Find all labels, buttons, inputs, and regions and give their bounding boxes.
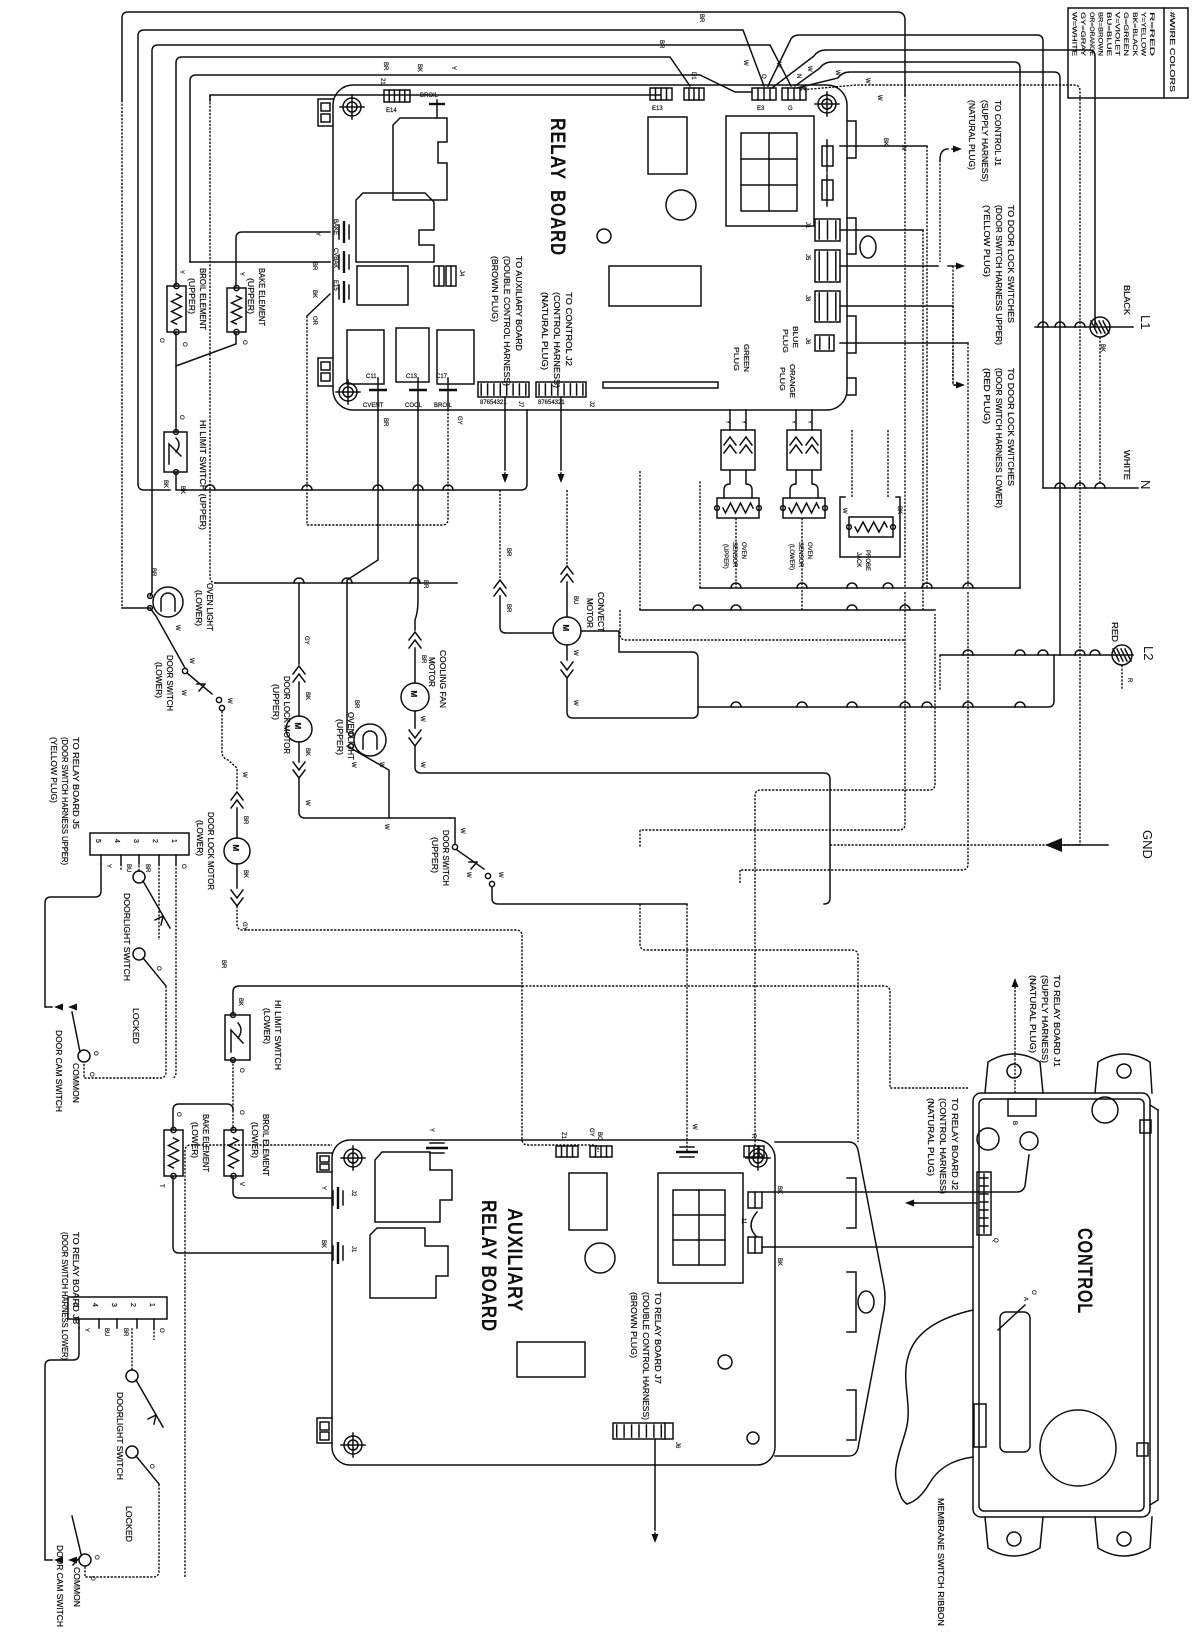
svg-text:TO RELAY BOARD J2: TO RELAY BOARD J2 <box>950 1098 959 1191</box>
card edge tab <box>847 1178 856 1228</box>
svg-text:BR: BR <box>122 1328 128 1337</box>
hole large <box>1040 1410 1116 1486</box>
hole <box>585 1243 615 1273</box>
svg-text:BR: BR <box>144 864 150 873</box>
hole <box>666 190 696 220</box>
oven light (lower) <box>148 587 183 617</box>
capacitor C11 CVENT <box>377 378 379 410</box>
wire bake element top <box>236 232 330 288</box>
mesh h845 <box>830 844 1080 846</box>
svg-text:TO DOOR LOCK SWITCHES: TO DOOR LOCK SWITCHES <box>1006 205 1015 323</box>
svg-text:(DOOR SWITCH HARNESS LOWER): (DOOR SWITCH HARNESS LOWER) <box>60 1232 69 1360</box>
svg-text:M: M <box>409 691 418 698</box>
svg-text:G: G <box>788 106 793 112</box>
aux board screws <box>341 1146 365 1170</box>
svg-text:BAKE ELEMENT: BAKE ELEMENT <box>257 268 266 326</box>
svg-text:W: W <box>419 716 425 722</box>
wire board J8 to bundle <box>840 265 938 267</box>
svg-text:W: W <box>742 60 748 66</box>
terminal L1 <box>1035 326 1133 328</box>
svg-text:1: 1 <box>170 839 177 843</box>
svg-text:Z1: Z1 <box>560 1132 566 1140</box>
wire to aux board w <box>686 904 688 1152</box>
svg-text:#WIRE COLORS: #WIRE COLORS <box>1168 12 1175 92</box>
svg-text:E15: E15 <box>332 280 338 291</box>
connector J5 <box>815 250 840 282</box>
control body <box>973 1093 1158 1517</box>
aux relay block grid <box>658 1173 743 1283</box>
svg-text:(LOWER): (LOWER) <box>262 1008 271 1044</box>
svg-text:RED: RED <box>1110 622 1119 642</box>
svg-text:11: 11 <box>740 1218 746 1225</box>
capacitor C13 COOL <box>417 378 419 410</box>
svg-text:G=GREEN: G=GREEN <box>1122 12 1128 56</box>
svg-text:O: O <box>238 1110 244 1115</box>
svg-text:BAKE ELEMENT: BAKE ELEMENT <box>201 1114 210 1172</box>
hole <box>597 229 611 243</box>
wire board J1 to bundle <box>840 145 927 147</box>
svg-text:Y: Y <box>724 420 730 424</box>
svg-text:BR: BR <box>658 40 664 49</box>
svg-text:C17: C17 <box>436 374 448 380</box>
svg-text:M: M <box>293 723 302 730</box>
svg-text:PLUG: PLUG <box>781 329 788 353</box>
svg-text:J5: J5 <box>804 254 810 261</box>
svg-text:R=RED: R=RED <box>1148 12 1154 57</box>
svg-text:AUXILIARY: AUXILIARY <box>503 1208 526 1312</box>
mesh h830 <box>640 592 905 830</box>
relay block K9 grid <box>726 116 814 226</box>
svg-text:OVEN: OVEN <box>806 542 812 559</box>
svg-text:CVBAK: CVBAK <box>332 248 338 268</box>
svg-text:4: 4 <box>91 1303 98 1307</box>
svg-text:BK=BLACK: BK=BLACK <box>1131 12 1137 56</box>
svg-text:O: O <box>93 1555 99 1560</box>
svg-text:BK: BK <box>162 480 168 488</box>
svg-text:O: O <box>175 1112 181 1117</box>
svg-text:J1: J1 <box>804 222 810 229</box>
svg-text:W: W <box>188 658 194 664</box>
svg-text:2: 2 <box>129 1303 136 1307</box>
wire colors legend box <box>1068 8 1188 98</box>
wire top run 2 <box>138 30 764 484</box>
svg-text:T: T <box>158 1184 164 1188</box>
svg-text:V=VIOLET: V=VIOLET <box>1114 12 1120 56</box>
svg-text:DOOR CAM SWITCH: DOOR CAM SWITCH <box>55 1545 64 1627</box>
svg-text:DOOR LOCK MOTOR: DOOR LOCK MOTOR <box>206 812 215 890</box>
svg-text:TO RELAY BOARD J7: TO RELAY BOARD J7 <box>653 1292 662 1385</box>
svg-text:GND: GND <box>1140 830 1155 859</box>
control mounting ear bottom left <box>985 1517 1043 1556</box>
svg-text:J8: J8 <box>804 295 810 302</box>
svg-text:R: R <box>750 1134 756 1139</box>
svg-text:87654321: 87654321 <box>480 400 507 406</box>
card edge tab <box>847 316 856 353</box>
aux top edge terminal Y <box>426 1147 448 1149</box>
relay K7 <box>648 117 687 174</box>
svg-text:(DOOR SWITCH HARNESS UPPER): (DOOR SWITCH HARNESS UPPER) <box>994 205 1003 345</box>
svg-text:PLUG: PLUG <box>732 347 739 371</box>
svg-text:BR: BR <box>698 14 704 23</box>
svg-text:W: W <box>180 690 186 696</box>
auxiliary relay board outline <box>317 1140 885 1465</box>
door cam switch 1 <box>78 1050 90 1062</box>
wire aux to control 1 <box>762 1155 1029 1192</box>
svg-text:J4: J4 <box>458 270 464 277</box>
svg-text:(LOWER): (LOWER) <box>250 1122 259 1158</box>
card edge tab <box>847 218 856 254</box>
svg-text:N: N <box>1138 480 1153 489</box>
svg-text:BAKE: BAKE <box>332 219 338 235</box>
aux top edge connector BO <box>590 1146 612 1157</box>
svg-text:3: 3 <box>110 1303 117 1307</box>
svg-text:BR=BROWN: BR=BROWN <box>1096 12 1102 56</box>
wire assembly2 left loop <box>45 1328 79 1560</box>
connector E13 <box>650 88 672 100</box>
connector J7 pin header <box>478 382 529 397</box>
wire pin1 riser 2 to aux <box>185 1145 332 1577</box>
wire top run 4 <box>176 57 690 286</box>
connector block J8 <box>68 1297 167 1319</box>
svg-text:BK: BK <box>311 290 317 298</box>
wire hi limit lower to broil <box>232 1060 234 1130</box>
wire fan right 5 <box>800 85 1080 845</box>
control mounting ear bottom right <box>1095 1517 1152 1556</box>
svg-text:2: 2 <box>151 839 158 843</box>
svg-text:M: M <box>231 845 240 852</box>
wire door switch upper output <box>492 887 687 904</box>
svg-text:BK: BK <box>416 64 422 72</box>
svg-text:OVEN LIGHT: OVEN LIGHT <box>205 583 214 631</box>
wire bake lower bottom to aux <box>173 1176 332 1253</box>
convect motor <box>566 490 568 566</box>
control connector P1 <box>1008 1099 1036 1116</box>
svg-text:BR: BR <box>353 700 359 709</box>
connector J3 pin header <box>536 382 586 397</box>
door lock motor (lower) <box>231 792 243 800</box>
svg-text:4: 4 <box>113 839 120 843</box>
svg-text:BR: BR <box>420 655 426 664</box>
svg-text:Y=YELLOW: Y=YELLOW <box>1139 12 1145 56</box>
svg-text:O: O <box>148 1464 154 1469</box>
svg-text:DOOR SWITCH: DOOR SWITCH <box>441 830 450 886</box>
svg-text:O: O <box>178 415 184 420</box>
svg-text:Y: Y <box>320 1186 326 1190</box>
wire assembly1 left loop <box>45 864 101 1007</box>
svg-text:(NATURAL PLUG): (NATURAL PLUG) <box>540 292 549 370</box>
aux relay K3 <box>569 1173 607 1230</box>
hole <box>1092 1097 1118 1123</box>
svg-text:Y: Y <box>806 420 812 424</box>
svg-text:W: W <box>572 700 578 706</box>
svg-text:HI LIMIT SWITCH: HI LIMIT SWITCH <box>273 1000 282 1070</box>
wire door switch to door lock motor (lower) <box>222 711 237 790</box>
svg-text:BLUE: BLUE <box>791 326 798 348</box>
svg-text:TO DOOR LOCK SWITCHES: TO DOOR LOCK SWITCHES <box>1006 368 1015 486</box>
svg-text:DOOR LOCK MOTOR: DOOR LOCK MOTOR <box>282 676 291 754</box>
wire board to orange plug <box>795 410 797 430</box>
svg-text:Y: Y <box>450 66 456 70</box>
wire staircase to aux right <box>640 904 858 1142</box>
svg-text:3: 3 <box>132 839 139 843</box>
aux relay K2 <box>370 1228 448 1298</box>
mesh h610 <box>640 609 935 611</box>
svg-text:(DOOR SWITCH HARNESS UPPER): (DOOR SWITCH HARNESS UPPER) <box>60 737 69 865</box>
svg-text:LOCKED: LOCKED <box>124 1506 133 1542</box>
svg-text:W: W <box>174 625 180 631</box>
svg-text:L2: L2 <box>1141 646 1156 660</box>
svg-text:O: O <box>238 1068 244 1073</box>
oven sensor (lower) <box>790 470 796 498</box>
relay K5 <box>396 328 429 382</box>
hole <box>860 236 876 258</box>
svg-text:W: W <box>226 698 232 704</box>
svg-text:COMMON: COMMON <box>72 1567 81 1607</box>
svg-text:COOL: COOL <box>405 403 423 409</box>
card edge tab <box>847 378 856 395</box>
svg-text:(SUPPLY HARNESS): (SUPPLY HARNESS) <box>980 100 989 182</box>
svg-text:W: W <box>864 78 870 84</box>
wire hi limit to board <box>176 410 527 490</box>
svg-text:A: A <box>1022 1297 1028 1301</box>
svg-text:(CONTROL HARNESS): (CONTROL HARNESS) <box>552 292 561 388</box>
control left edge connector <box>974 1404 986 1447</box>
svg-text:(BROWN PLUG): (BROWN PLUG) <box>629 1292 638 1358</box>
svg-text:(UPPER): (UPPER) <box>335 719 344 755</box>
svg-text:J6: J6 <box>674 1442 680 1449</box>
wire oven light upper bottom <box>347 746 389 818</box>
svg-text:Y: Y <box>428 1128 434 1132</box>
svg-text:BK: BK <box>320 1240 326 1248</box>
wire probe feeds <box>851 430 853 497</box>
connector J6 <box>815 335 834 351</box>
probe jack <box>840 497 900 557</box>
wire top run 3 <box>152 45 791 592</box>
svg-text:BLACK: BLACK <box>1122 285 1131 316</box>
svg-text:OR: OR <box>311 316 317 326</box>
svg-text:BK: BK <box>882 138 888 146</box>
ribbon connector <box>1000 1312 1030 1452</box>
connector D1 <box>684 88 704 100</box>
connector J8 <box>815 291 840 322</box>
wire control J1 arrow up <box>1014 990 1016 1093</box>
card edge tab <box>847 1390 856 1440</box>
control tab <box>1140 1120 1151 1133</box>
wire h583 <box>216 582 457 584</box>
aux top edge connector R <box>744 1146 764 1157</box>
svg-text:MOTOR: MOTOR <box>585 598 594 628</box>
wire arrow to door lock switches upper <box>948 265 953 267</box>
svg-text:(LOWER): (LOWER) <box>154 662 163 698</box>
door switch (lower) <box>182 668 187 673</box>
svg-text:BOARD: BOARD <box>546 190 569 256</box>
svg-text:BU=BLUE: BU=BLUE <box>1105 12 1111 56</box>
svg-text:L1: L1 <box>1138 315 1153 329</box>
wire hi limit lower top <box>233 986 522 1015</box>
wire board to green plug <box>729 410 731 430</box>
svg-text:O: O <box>181 342 187 347</box>
svg-text:J1: J1 <box>350 1246 356 1253</box>
component Y2 <box>822 180 833 200</box>
svg-text:(DOUBLE CONTROL HARNESS): (DOUBLE CONTROL HARNESS) <box>641 1292 650 1420</box>
svg-text:TO CONTROL J1: TO CONTROL J1 <box>993 100 1002 167</box>
svg-text:TO RELAY BOARD J5: TO RELAY BOARD J5 <box>71 737 80 830</box>
svg-text:CONTROL: CONTROL <box>1073 1228 1096 1314</box>
svg-text:COMMON: COMMON <box>71 1063 80 1103</box>
svg-text:W: W <box>841 508 847 514</box>
control tab <box>1137 1443 1148 1456</box>
oven light (upper) <box>349 724 386 756</box>
svg-text:BK: BK <box>237 998 243 1006</box>
svg-text:W: W <box>304 800 310 806</box>
svg-text:DOORLIGHT SWITCH: DOORLIGHT SWITCH <box>122 893 131 981</box>
svg-text:N: N <box>795 74 801 78</box>
svg-text:Q: Q <box>992 1238 998 1243</box>
mesh h707 <box>698 655 1054 707</box>
svg-text:R: R <box>1126 678 1132 683</box>
svg-text:DOOR CAM SWITCH: DOOR CAM SWITCH <box>54 1030 63 1112</box>
svg-text:O: O <box>158 1328 164 1333</box>
svg-text:TO RELAY BOARD J1: TO RELAY BOARD J1 <box>1052 975 1061 1068</box>
svg-text:GY: GY <box>241 922 247 931</box>
svg-text:GY: GY <box>588 1128 594 1137</box>
svg-text:W: W <box>459 828 465 834</box>
terminal E15 <box>343 281 345 303</box>
svg-text:O: O <box>92 1051 98 1056</box>
mesh h588 <box>700 587 1020 589</box>
svg-text:5: 5 <box>94 839 101 843</box>
svg-text:TO RELAY BOARD J8: TO RELAY BOARD J8 <box>71 1232 80 1325</box>
svg-text:BROIL ELEMENT: BROIL ELEMENT <box>198 268 207 330</box>
svg-text:RELAY BOARD: RELAY BOARD <box>477 1200 500 1332</box>
svg-text:(UPPER): (UPPER) <box>187 278 196 314</box>
svg-text:C13: C13 <box>406 374 418 380</box>
svg-text:O: O <box>158 338 164 343</box>
wire to oven light lower <box>122 607 150 609</box>
svg-text:DOORLIGHT SWITCH: DOORLIGHT SWITCH <box>115 1392 124 1480</box>
aux top edge connector Z1 <box>556 1146 578 1157</box>
svg-text:HI LIMIT SWITCH (UPPER): HI LIMIT SWITCH (UPPER) <box>198 420 207 530</box>
terminal GND <box>1045 838 1062 852</box>
svg-text:BR: BR <box>505 604 511 613</box>
svg-text:BK: BK <box>776 1186 782 1194</box>
svg-text:Y: Y <box>238 272 244 276</box>
svg-text:O: O <box>1030 1290 1036 1295</box>
svg-text:B: B <box>1011 1121 1017 1125</box>
connector block J5 <box>90 833 189 855</box>
svg-text:J2: J2 <box>350 1190 356 1197</box>
wire sensor drops <box>735 518 737 588</box>
aux top edge terminal W <box>676 1151 698 1153</box>
svg-text:BK: BK <box>242 870 248 878</box>
svg-text:D1: D1 <box>690 72 696 80</box>
svg-text:O: O <box>89 1576 95 1581</box>
harness plug (green) <box>721 430 755 470</box>
connector J4 <box>434 266 444 286</box>
svg-text:BR: BR <box>242 816 248 825</box>
aux left edge terminal 2 <box>337 1242 339 1264</box>
wire arrow to control j1 supply harness <box>940 149 948 160</box>
wire bake element bottom diagonal <box>176 332 236 366</box>
wire j6 down arrow <box>654 1439 656 1530</box>
relay K2 <box>356 193 434 262</box>
svg-text:O: O <box>88 1072 94 1077</box>
wire oven light upper top <box>347 410 378 732</box>
relay K4 <box>347 330 384 384</box>
wire arrow to door lock switches lower <box>840 305 953 307</box>
wire bake lower top <box>173 1104 233 1130</box>
svg-text:Y: Y <box>105 864 111 868</box>
wire br to convect <box>499 490 501 578</box>
wire cvbak terminal <box>190 261 330 263</box>
wire fan right 1 <box>768 35 1043 488</box>
terminal BAKE <box>343 221 345 243</box>
svg-text:Y: Y <box>178 270 184 274</box>
svg-text:BR: BR <box>382 62 388 71</box>
svg-text:O: O <box>180 864 186 869</box>
membrane switch ribbon <box>896 1310 973 1494</box>
svg-text:WHITE: WHITE <box>1122 450 1131 480</box>
svg-text:(UPPER): (UPPER) <box>271 684 280 720</box>
door cam switch 2 <box>79 1554 91 1566</box>
svg-text:Y: Y <box>83 1328 89 1332</box>
hi limit switch (upper) <box>164 430 187 475</box>
wire pin1 riser <box>172 864 176 1078</box>
svg-text:BROIL: BROIL <box>420 93 439 99</box>
svg-text:O: O <box>155 966 161 971</box>
svg-text:J2: J2 <box>588 401 594 408</box>
wire board J5 to bundle <box>840 229 923 231</box>
bake element (upper) <box>227 285 246 334</box>
control mounting ear top right <box>1095 1054 1152 1093</box>
svg-text:M: M <box>561 625 570 632</box>
wire fan right 3 <box>795 62 1020 588</box>
door lock motor (upper) <box>298 583 300 664</box>
svg-text:W: W <box>419 762 425 768</box>
wire fan right 4 <box>797 72 1060 655</box>
hole <box>1020 1132 1038 1150</box>
hole <box>977 1128 999 1150</box>
mesh h640 <box>620 610 905 640</box>
svg-text:(RED PLUG): (RED PLUG) <box>982 368 991 424</box>
cooling fan motor <box>415 410 418 630</box>
svg-text:BK: BK <box>776 1258 782 1266</box>
svg-text:BK: BK <box>304 748 310 756</box>
terminal CVBAK <box>343 251 345 273</box>
svg-text:LOCKED: LOCKED <box>131 1008 140 1044</box>
svg-text:GREEN: GREEN <box>742 344 749 372</box>
svg-text:BK: BK <box>304 692 310 700</box>
svg-text:O: O <box>241 340 247 345</box>
svg-text:C11: C11 <box>366 374 377 380</box>
oven sensor (upper) <box>724 470 730 498</box>
svg-text:GY: GY <box>456 416 462 425</box>
aux right connectors to control <box>748 1192 762 1208</box>
mesh h930 right <box>522 986 968 1088</box>
svg-text:BR: BR <box>505 548 511 557</box>
svg-text:BR: BR <box>150 568 156 577</box>
broil element (upper) <box>167 283 186 334</box>
relay K8 <box>609 266 701 306</box>
svg-text:(YELLOW PLUG): (YELLOW PLUG) <box>49 737 58 803</box>
svg-text:W: W <box>378 762 384 768</box>
component Y1 <box>822 146 833 166</box>
relay K6 <box>437 330 474 384</box>
svg-text:OVEN: OVEN <box>740 542 746 559</box>
svg-text:(LOWER): (LOWER) <box>195 820 204 856</box>
hole <box>858 1291 874 1313</box>
connector E14 <box>384 90 410 102</box>
